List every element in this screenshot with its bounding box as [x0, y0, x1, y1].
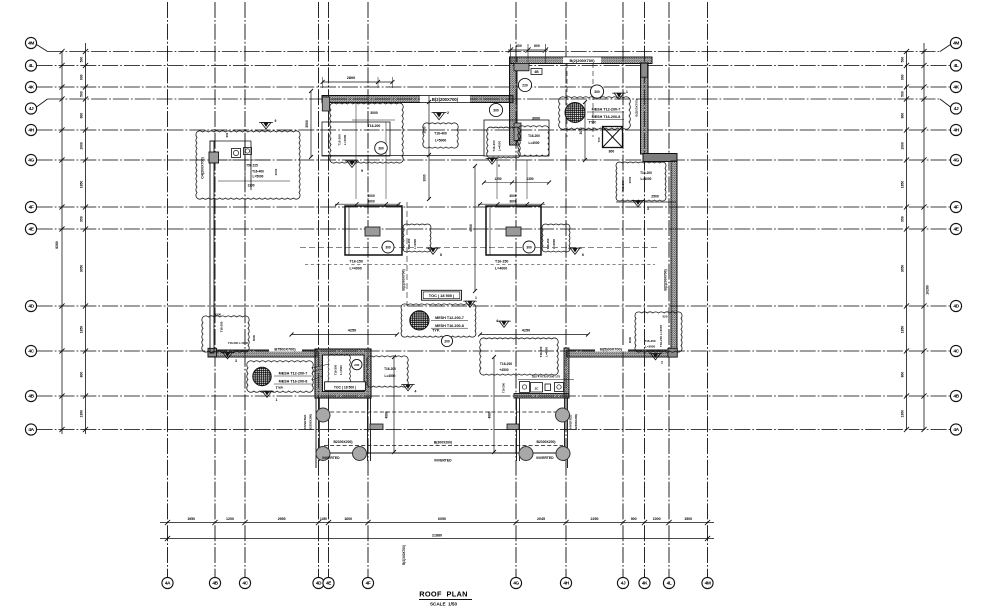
svg-text:3000: 3000 [423, 174, 427, 181]
svg-text:1360: 1360 [901, 410, 905, 418]
svg-text:4L: 4L [667, 581, 672, 587]
svg-text:L=4500: L=4500 [545, 347, 549, 357]
svg-text:4A: 4A [165, 581, 171, 587]
grid line 4F (vertical) [367, 2, 369, 577]
svg-text:4L: 4L [29, 63, 34, 69]
svg-text:4250: 4250 [522, 329, 530, 333]
svg-text:200: 200 [444, 340, 450, 344]
svg-text:2000: 2000 [628, 336, 632, 343]
svg-text:300: 300 [594, 90, 600, 94]
svg-text:TOC | 18 500 |: TOC | 18 500 | [429, 293, 454, 298]
svg-text:900: 900 [631, 517, 637, 521]
svg-text:4M: 4M [705, 581, 711, 587]
svg-text:1850: 1850 [80, 326, 84, 334]
svg-text:T16-150: T16-150 [495, 260, 508, 264]
svg-text:3000: 3000 [370, 111, 378, 115]
left stair shaft [315, 349, 371, 398]
svg-text:1000: 1000 [653, 517, 661, 521]
svg-text:6: 6 [582, 253, 584, 257]
svg-text:500: 500 [80, 57, 84, 63]
svg-text:4F: 4F [954, 205, 959, 211]
vertical beam axis center [406, 202, 408, 306]
svg-text:1500: 1500 [684, 517, 692, 521]
svg-text:T16-200: T16-200 [640, 171, 652, 175]
svg-text:4J: 4J [29, 106, 34, 112]
svg-text:360: 360 [378, 147, 384, 151]
svg-text:1500: 1500 [215, 313, 222, 317]
drain circle 5 [519, 447, 533, 461]
svg-text:MESH T12-200-7: MESH T12-200-7 [592, 108, 621, 112]
svg-text:T16-200: T16-200 [644, 339, 656, 343]
dashed gutter line upper [324, 411, 563, 413]
svg-text:C4(200X700): C4(200X700) [201, 157, 205, 179]
svg-text:MESH T12-200-7: MESH T12-200-7 [435, 316, 464, 320]
dim 4000 [474, 166, 476, 291]
top dimension 600 600 [508, 49, 548, 51]
svg-text:B2300X200): B2300X200) [536, 440, 555, 444]
drain circle 6 [556, 447, 570, 461]
dim 4250 left [292, 334, 398, 336]
svg-text:B(2)300X700): B(2)300X700) [402, 269, 406, 290]
grid line 4A (horizontal) [37, 429, 951, 431]
grid line 4D (horizontal) [37, 305, 951, 307]
drain circle 1 [316, 408, 330, 422]
svg-text:T16-400: T16-400 [252, 170, 264, 174]
svg-text:L=4000: L=4000 [529, 141, 540, 145]
room box around 360 callout [322, 122, 390, 156]
dim 3500 [310, 91, 312, 157]
svg-text:T16-150: T16-150 [546, 238, 550, 249]
section marker 3c [223, 353, 233, 359]
svg-text:950: 950 [901, 216, 905, 222]
svg-text:4K: 4K [642, 581, 648, 587]
skylight box 1 [345, 206, 402, 255]
column gray mid [514, 123, 521, 141]
svg-text:1000: 1000 [901, 142, 905, 150]
svg-text:B(300X200): B(300X200) [434, 441, 452, 445]
svg-text:4M: 4M [28, 41, 34, 47]
svg-text:2045: 2045 [537, 517, 545, 521]
svg-text:1350: 1350 [526, 177, 533, 181]
wall right lower [671, 161, 677, 351]
svg-text:300: 300 [493, 109, 499, 113]
svg-text:L=4000: L=4000 [350, 266, 362, 270]
svg-text:MESH T16-200-8: MESH T16-200-8 [592, 115, 621, 119]
svg-text:MESH T12-200-7: MESH T12-200-7 [279, 372, 308, 376]
grid line 4E (vertical) [328, 2, 330, 577]
wall bottom-left B7500X700 [208, 350, 317, 357]
svg-text:4B: 4B [534, 70, 539, 74]
revision cloud bottom-right outer [635, 312, 682, 352]
grid line 4J (horizontal) [48, 98, 941, 100]
svg-text:MESH T16-200-8: MESH T16-200-8 [279, 380, 308, 384]
svg-text:1300: 1300 [247, 184, 254, 188]
svg-text:4G: 4G [513, 581, 519, 587]
svg-text:3000: 3000 [532, 117, 540, 121]
svg-text:4H: 4H [563, 581, 569, 587]
svg-text:INVERTED: INVERTED [322, 456, 340, 460]
svg-text:600: 600 [534, 44, 540, 48]
svg-text:T16-200 L=3000: T16-200 L=3000 [659, 325, 663, 348]
dims 1250 1350 [484, 182, 549, 184]
callout circle 200 center [441, 335, 452, 346]
section marker 1c [614, 93, 624, 99]
svg-text:3600: 3600 [509, 200, 517, 204]
wall right upper [641, 63, 649, 154]
svg-text:4: 4 [415, 390, 417, 394]
drain circle 3 [316, 447, 330, 461]
svg-text:4D: 4D [28, 304, 34, 310]
svg-text:B2300X200): B2300X200) [574, 414, 578, 430]
svg-text:1850: 1850 [901, 181, 905, 189]
section marker 1b [465, 301, 475, 307]
svg-text:1000: 1000 [80, 142, 84, 150]
revision cloud C4 top-left [196, 131, 300, 199]
svg-text:B(5)00X700): B(5)00X700) [600, 348, 622, 352]
wall connector top-left [210, 140, 251, 142]
svg-text:1: 1 [276, 398, 278, 402]
svg-text:4F: 4F [29, 205, 34, 211]
svg-text:4250: 4250 [348, 329, 356, 333]
svg-text:B(2)300X700): B(2)300X700) [402, 545, 406, 565]
svg-text:4A: 4A [28, 427, 34, 433]
crosshatch opening box [603, 127, 623, 148]
svg-text:3600: 3600 [367, 200, 375, 204]
grid line 4J (vertical) [622, 2, 624, 577]
svg-text:B2300X200): B2300X200) [309, 414, 313, 430]
svg-text:T16-150: T16-150 [350, 260, 363, 264]
svg-text:1850: 1850 [901, 326, 905, 334]
skylight 1 top dims 3000/3600 [335, 203, 400, 205]
svg-text:3000: 3000 [367, 194, 375, 198]
svg-text:4: 4 [496, 319, 498, 323]
svg-text:4B: 4B [953, 394, 959, 400]
column gray bottom-left end [208, 348, 217, 357]
svg-text:4J: 4J [621, 581, 626, 587]
svg-text:1: 1 [475, 296, 477, 300]
svg-text:4L: 4L [954, 63, 959, 69]
svg-text:8: 8 [440, 253, 442, 257]
revision cloud TM-200 [518, 126, 549, 157]
svg-text:3500: 3500 [305, 120, 309, 128]
svg-text:INVERTED: INVERTED [434, 459, 452, 463]
svg-text:L=4000: L=4000 [343, 134, 347, 145]
mini box 4B [531, 69, 542, 75]
svg-text:1200: 1200 [226, 517, 234, 521]
svg-text:L=4000: L=4000 [413, 239, 417, 249]
grid line 4C (vertical) [244, 2, 246, 577]
svg-text:L=4500: L=4500 [339, 365, 343, 375]
svg-text:L=4000: L=4000 [552, 239, 556, 249]
svg-text:4K: 4K [28, 85, 34, 91]
svg-text:T16-200: T16-200 [368, 124, 381, 128]
svg-text:950: 950 [80, 216, 84, 222]
svg-text:9: 9 [498, 164, 500, 168]
svg-text:200: 200 [354, 363, 359, 367]
svg-text:2: 2 [661, 361, 663, 365]
svg-text:3: 3 [647, 207, 649, 211]
svg-text:2250: 2250 [591, 517, 599, 521]
drain circle 2 [556, 408, 570, 422]
svg-text:2: 2 [447, 111, 449, 115]
svg-text:TOC | 18 500 |: TOC | 18 500 | [334, 385, 356, 389]
svg-text:T16-150: T16-150 [407, 238, 411, 249]
svg-text:2950: 2950 [278, 517, 286, 521]
skylight box 2 [486, 206, 541, 255]
svg-text:525 470 250 200 175: 525 470 250 200 175 [532, 375, 561, 379]
wall top B(2)200X700 [510, 57, 653, 64]
grid line 4M (vertical) [707, 2, 709, 577]
gutter gray box left [370, 424, 383, 430]
svg-text:B(2)00X700): B(2)00X700) [635, 99, 639, 116]
svg-text:ROOF PLAN: ROOF PLAN [419, 590, 468, 599]
revision cloud MESH bottom-left [247, 361, 314, 393]
svg-text:4C: 4C [242, 581, 248, 587]
right stair shaft [564, 348, 569, 398]
dim 2800 [323, 81, 393, 83]
revision cloud right of skylight 2 [542, 224, 570, 252]
svg-text:4880: 4880 [385, 411, 389, 418]
svg-text:1950: 1950 [187, 517, 195, 521]
wall step vertical [510, 57, 518, 145]
dashed line below skylights [305, 264, 655, 266]
section marker 2 [434, 113, 445, 120]
revision cloud T16-200 top-mid [330, 103, 404, 163]
wall bottom-right B(5)00X700 [567, 350, 677, 357]
svg-text:1: 1 [626, 90, 628, 94]
grid line 4E (horizontal) [37, 228, 951, 230]
revision cloud MESH center [401, 304, 476, 337]
dim 3000 vertical pair [428, 96, 430, 200]
grid line 4D (vertical) [318, 2, 320, 577]
svg-text:900: 900 [901, 74, 905, 80]
svg-text:B(2)200X700): B(2)200X700) [569, 58, 595, 63]
dashed stub lines top-right room [566, 63, 568, 137]
gutter gray box right [507, 424, 519, 430]
wall top-left B(2)200X700 [322, 96, 513, 103]
svg-text:INVERTED: INVERTED [303, 415, 307, 430]
svg-text:4A: 4A [953, 427, 959, 433]
svg-text:3000: 3000 [628, 176, 632, 183]
revision cloud bottom-left outer [202, 316, 249, 352]
drain circle 4 [353, 447, 367, 461]
svg-text:750 225: 750 225 [246, 164, 258, 168]
svg-text:B(2)200X700): B(2)200X700) [664, 269, 668, 290]
svg-text:600: 600 [516, 44, 522, 48]
grid line 4B (vertical) [214, 2, 216, 577]
svg-text:T16-400: T16-400 [434, 132, 447, 136]
svg-text:SCALE 1/50: SCALE 1/50 [430, 601, 458, 606]
svg-text:T16-200: T16-200 [502, 382, 506, 393]
revision cloud T16-400 [423, 123, 458, 148]
section marker 4b [499, 321, 509, 327]
section marker 2b [651, 354, 661, 360]
section marker 9b [488, 158, 497, 164]
svg-text:300: 300 [385, 246, 391, 250]
svg-text:T16-200: T16-200 [621, 180, 625, 192]
beam gray bar right [643, 154, 677, 162]
svg-text:4G: 4G [953, 158, 959, 164]
svg-text:T16-200: T16-200 [220, 321, 224, 332]
svg-text:220: 220 [522, 84, 528, 88]
wall left [210, 141, 214, 353]
TOC level label [422, 290, 462, 300]
svg-text:800: 800 [80, 113, 84, 119]
callout circle 300b [590, 85, 603, 98]
svg-text:L=4000: L=4000 [498, 141, 502, 152]
svg-text:1450: 1450 [320, 517, 327, 521]
svg-text:4C: 4C [953, 349, 959, 355]
dim 4250 right [480, 334, 588, 336]
svg-text:4J: 4J [954, 106, 959, 112]
svg-text:T16-200: T16-200 [338, 134, 342, 146]
svg-text:4G: 4G [28, 158, 34, 164]
svg-text:1250: 1250 [494, 177, 501, 181]
right dimension column [906, 52, 908, 430]
column gray bottom-right end [668, 348, 677, 357]
svg-text:L=4000: L=4000 [495, 266, 507, 270]
svg-text:8280: 8280 [55, 241, 59, 249]
svg-text:3050: 3050 [901, 265, 905, 273]
svg-text:9: 9 [275, 119, 277, 123]
grid line 4G (horizontal) [37, 159, 951, 161]
svg-text:4880: 4880 [488, 411, 492, 418]
svg-text:4C: 4C [28, 349, 34, 355]
svg-text:4B: 4B [28, 394, 34, 400]
svg-text:4D: 4D [953, 304, 959, 310]
grid line 4L (vertical) [668, 2, 670, 577]
grid line 4G (vertical) [515, 2, 517, 577]
grid line 4H (horizontal) [37, 129, 951, 131]
callout circle 220 [518, 78, 531, 91]
svg-text:T16-200: T16-200 [334, 364, 338, 375]
grid line 4H (vertical) [565, 2, 567, 577]
svg-text:21880: 21880 [432, 533, 442, 537]
svg-text:1360: 1360 [80, 410, 84, 418]
gutter bottom line [316, 452, 568, 454]
column gray top wall left end [514, 63, 529, 70]
grid line 4K (vertical) [644, 2, 646, 577]
svg-text:3050: 3050 [80, 265, 84, 273]
svg-text:B7500X700): B7500X700) [274, 348, 296, 352]
left dimension column [61, 52, 63, 435]
svg-text:3000: 3000 [252, 334, 256, 341]
section marker 4a [403, 385, 413, 391]
svg-text:600: 600 [225, 132, 229, 137]
skylight 2 top dims 3000/3600 [478, 203, 545, 205]
svg-text:2000: 2000 [274, 168, 278, 175]
revision cloud left of right shaft [480, 338, 559, 375]
section marker 1a [262, 391, 272, 397]
svg-text:MESH T16-200-8: MESH T16-200-8 [435, 324, 464, 328]
room box around clouds c4 c5 [484, 120, 549, 156]
svg-text:TYP.: TYP. [276, 386, 284, 390]
svg-text:4K: 4K [953, 85, 959, 91]
dim 4880 line right [493, 357, 495, 452]
svg-text:800: 800 [609, 150, 615, 154]
svg-text:900: 900 [80, 74, 84, 80]
svg-text:TYP.: TYP. [589, 121, 597, 125]
svg-text:700: 700 [597, 137, 601, 142]
svg-text:9: 9 [361, 169, 363, 173]
dim stubs skylight2 [496, 160, 498, 199]
svg-text:300: 300 [526, 246, 532, 250]
svg-text:T16-200: T16-200 [528, 134, 540, 138]
dim stubs skylight1 [355, 103, 357, 199]
svg-text:T16-200 L=3000: T16-200 L=3000 [228, 341, 248, 345]
grid line 4K (horizontal) [37, 86, 951, 88]
svg-text:3000: 3000 [509, 194, 517, 198]
dim 4880 line left [393, 357, 395, 452]
svg-text:4F: 4F [366, 581, 371, 587]
svg-text:6050: 6050 [438, 517, 446, 521]
svg-text:525: 525 [662, 315, 667, 319]
svg-text:L=5000: L=5000 [253, 175, 264, 179]
grid line 4B (horizontal) [37, 395, 951, 397]
grid line 4F (horizontal) [37, 206, 951, 208]
svg-text:10280: 10280 [926, 285, 930, 295]
svg-text:L=4000: L=4000 [641, 177, 652, 181]
svg-text:4M: 4M [953, 41, 959, 47]
section marker 8 [428, 248, 438, 254]
svg-text:3: 3 [235, 359, 237, 363]
column gray top-left wall end [322, 97, 329, 111]
svg-text:500: 500 [80, 91, 84, 97]
svg-text:INVERTED: INVERTED [569, 415, 573, 430]
revision cloud right of skylight 1 [403, 224, 431, 252]
svg-text:TYP.: TYP. [432, 329, 440, 333]
svg-text:INVERTED: INVERTED [536, 456, 554, 460]
revision cloud right T16-200 [616, 162, 666, 201]
svg-text:2800: 2800 [347, 76, 355, 80]
section marker 3 [633, 201, 643, 207]
revision cloud MESH top-right [559, 97, 631, 129]
svg-text:4000: 4000 [469, 224, 473, 232]
bottom dimension lines [160, 522, 714, 524]
column gray top-right [641, 63, 648, 77]
svg-text:4B: 4B [212, 581, 218, 587]
svg-text:500: 500 [901, 57, 905, 63]
svg-text:B2300X200): B2300X200) [333, 440, 352, 444]
callout circle 300a [489, 103, 502, 116]
svg-text:1850: 1850 [80, 181, 84, 189]
svg-text:4H: 4H [28, 128, 34, 134]
svg-text:1600: 1600 [344, 517, 352, 521]
svg-text:800: 800 [80, 372, 84, 378]
svg-text:T16-200: T16-200 [492, 140, 496, 152]
section marker c1 top [261, 123, 271, 130]
svg-text:2500: 2500 [651, 195, 659, 199]
grid line 4M (horizontal) [48, 51, 941, 53]
svg-text:+4500: +4500 [499, 368, 508, 372]
svg-text:3050: 3050 [579, 127, 583, 134]
svg-text:500: 500 [901, 91, 905, 97]
section marker 9 [347, 161, 357, 168]
beam line under cloud right [616, 201, 676, 203]
svg-text:4D: 4D [316, 581, 322, 587]
dim 3050 [584, 102, 586, 160]
svg-text:L=5000: L=5000 [435, 139, 447, 143]
svg-text:T16-200: T16-200 [500, 362, 512, 366]
revision cloud mid-left of col7 [487, 127, 521, 158]
svg-text:800: 800 [901, 372, 905, 378]
revision cloud right of left shaft [367, 356, 409, 387]
section marker 6 [570, 248, 580, 254]
svg-text:T16-200: T16-200 [539, 346, 543, 357]
grid line 4C (horizontal) [37, 350, 951, 352]
svg-text:B(2)200X700): B(2)200X700) [432, 97, 459, 102]
svg-text:800: 800 [901, 113, 905, 119]
